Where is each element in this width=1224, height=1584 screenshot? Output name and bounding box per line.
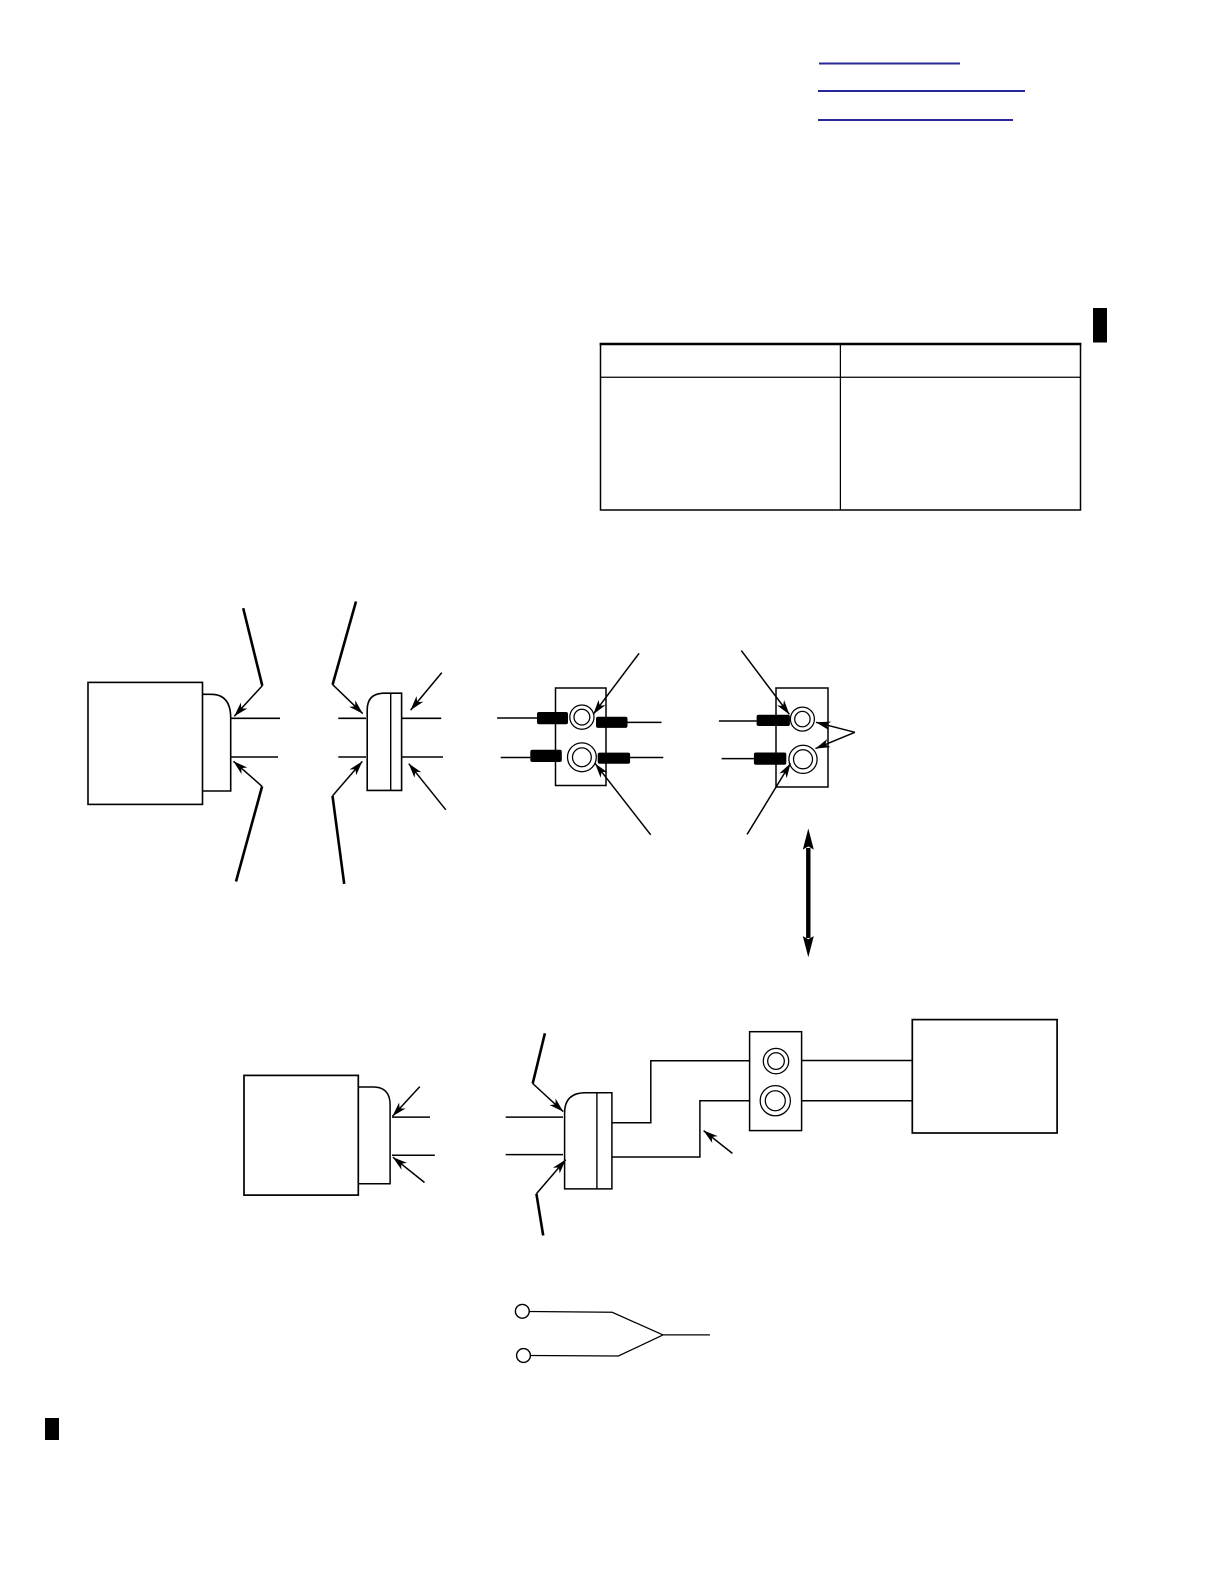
terminal block 3 (row 1) (556, 688, 607, 786)
wire left-lower (fig 6) (506, 1154, 563, 1156)
fork lead lower wire (530, 1335, 663, 1356)
wire lower-left (fig 3) (501, 757, 531, 759)
change bar (revision marker) bottom left (45, 1418, 59, 1440)
ring terminal upper (fig 4) outer (790, 707, 814, 731)
wire stub right-upper (fig 2) (402, 717, 441, 719)
wire lower (fig 4) (722, 758, 754, 760)
fork lead tail wire (663, 1334, 710, 1336)
transformer box 2 (row 2) (244, 1075, 358, 1195)
crimp lower (fig 4) (754, 753, 786, 765)
fork lead upper wire (529, 1312, 663, 1335)
wire stub right-lower (fig 2) (402, 756, 443, 758)
callout arrow top-left (fig 6) (533, 1033, 564, 1111)
crimp upper-right (fig 3) (596, 717, 628, 728)
wire upper (fig 4) (719, 720, 757, 722)
wire upper-right (fig 3) (627, 721, 661, 723)
wire stub upper (fig 1) (231, 717, 280, 719)
equipment box (row 2 right) (912, 1020, 1057, 1133)
ring terminal lower (fig 4) outer (789, 745, 817, 773)
callout fork arrow right (fig 4) upper (816, 722, 855, 732)
ring terminal lower (fig 3) inner (573, 748, 592, 767)
table outer border (601, 344, 1081, 510)
callout arrow lower (fig 5) (393, 1157, 425, 1182)
connector plug on transformer 1 (203, 694, 231, 791)
ring terminal upper (fig 3) outer (570, 705, 594, 729)
ring terminal upper (fig 3) inner (574, 709, 590, 725)
change bar (revision marker) top right (1093, 308, 1107, 343)
terminal block 4 (row 1) (776, 688, 828, 787)
crimp lower-right (fig 3) (598, 753, 630, 764)
callout arrow bottom-left (fig 6) (536, 1160, 565, 1236)
wire block-to-box lower (row 2) (802, 1100, 913, 1102)
hyperlink underline 1 (819, 63, 960, 65)
routed wire lower (fig 6 to block) (612, 1101, 750, 1157)
callout arrow bottom (fig 3) (595, 764, 651, 835)
connector plug on transformer 2 (358, 1087, 390, 1184)
connector plug 6 flange line (596, 1093, 598, 1189)
wire stub lower (fig 5) (392, 1154, 435, 1156)
wire upper-left (fig 3) (497, 717, 537, 719)
table top border thick (600, 343, 1082, 345)
wire stub upper (fig 5) (392, 1116, 430, 1118)
ring terminal lower (fig 3) outer (568, 743, 597, 772)
ring terminal upper (row 2) outer (763, 1048, 788, 1073)
callout arrow bottom-right (fig 2) (409, 764, 446, 810)
crimp lower-left (fig 3) (530, 750, 562, 762)
callout arrow top-right (fig 2) (411, 673, 442, 711)
connector plug 6 (middle, row 2) (565, 1093, 612, 1189)
wire left-upper (fig 6) (506, 1116, 563, 1118)
crimp upper (fig 4) (757, 715, 790, 726)
ring terminal upper (fig 4) inner (795, 711, 810, 726)
hyperlink underline 2 (818, 90, 1025, 92)
table header divider row line (601, 376, 1081, 378)
terminal block (row 2) (750, 1032, 802, 1131)
routed wire upper (fig 6 to block) (612, 1061, 750, 1123)
callout arrow top-left (fig 2) (333, 602, 363, 714)
wire stub lower (fig 1) (231, 756, 278, 758)
callout arrow upper (fig 5) (393, 1087, 420, 1117)
table column divider (839, 344, 841, 510)
callout arrow bottom (fig 1) (234, 761, 263, 881)
callout arrow at wire bend (fig 6) (704, 1131, 733, 1154)
callout arrow top (fig 1) (234, 608, 262, 716)
wire stub left-upper (fig 2) (338, 717, 366, 719)
hyperlink underline 3 (818, 119, 1013, 121)
ring terminal lower (row 2) outer (760, 1086, 790, 1116)
callout arrow top-left (fig 4) (741, 651, 789, 715)
wire stub left-lower (fig 2) (338, 756, 366, 758)
callout fork arrow right (fig 4) lower (816, 732, 855, 748)
fork lead terminal lower circle (517, 1349, 531, 1363)
fork lead terminal upper circle (515, 1304, 529, 1318)
ring terminal lower (row 2) inner (765, 1091, 785, 1111)
callout arrow bottom-left (fig 4) (747, 763, 790, 834)
callout arrow top (fig 3) (593, 653, 639, 714)
callout arrow bottom-left (fig 2) (333, 761, 363, 884)
double-headed vertical arrow (803, 829, 814, 958)
transformer box 1 (row 1) (88, 682, 203, 804)
crimp upper-left (fig 3) (537, 712, 568, 724)
connector plug 2 flange line (390, 693, 392, 790)
ring terminal lower (fig 4) inner (794, 750, 813, 769)
wire lower-right (fig 3) (630, 757, 663, 759)
wire block-to-box upper (row 2) (802, 1060, 913, 1062)
connector plug 2 (middle, row 1) (367, 693, 401, 790)
ring terminal upper (row 2) inner (768, 1053, 785, 1070)
